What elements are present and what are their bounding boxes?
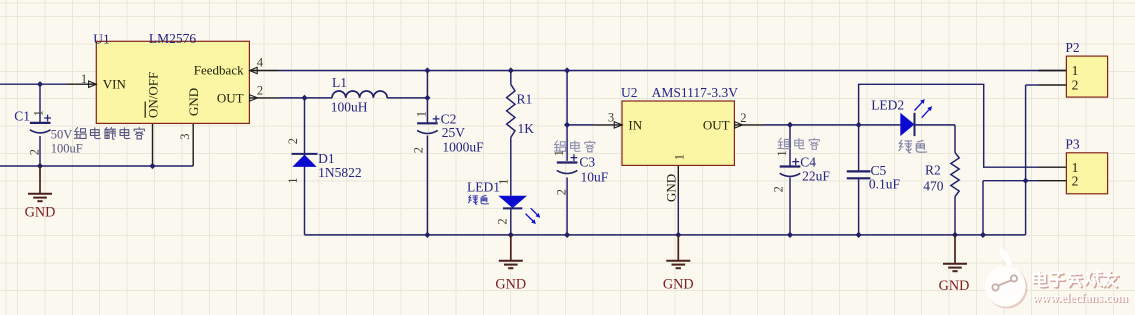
svg-text:U2: U2: [621, 85, 638, 100]
svg-text:1: 1: [414, 111, 428, 117]
svg-text:GND: GND: [495, 277, 526, 293]
svg-text:3: 3: [608, 111, 614, 125]
svg-text:2: 2: [1072, 78, 1079, 93]
svg-text:0.1uF: 0.1uF: [869, 177, 901, 192]
svg-text:100uH: 100uH: [331, 100, 368, 115]
svg-text:C1: C1: [14, 109, 30, 124]
svg-text:1: 1: [775, 150, 789, 156]
svg-text:1: 1: [286, 178, 300, 184]
svg-text:GND: GND: [25, 205, 56, 221]
svg-text:LED1: LED1: [467, 179, 500, 194]
svg-text:C3: C3: [579, 155, 595, 170]
svg-text:10uF: 10uF: [581, 170, 609, 185]
svg-text:2: 2: [740, 111, 746, 125]
svg-text:GND: GND: [663, 174, 678, 202]
svg-text:1: 1: [497, 179, 511, 185]
svg-text:GND: GND: [939, 278, 970, 294]
svg-text:2: 2: [555, 189, 569, 195]
svg-text:100uF: 100uF: [51, 142, 83, 156]
svg-text:1: 1: [32, 110, 46, 116]
svg-text:OUT: OUT: [703, 118, 730, 133]
svg-text:C4: C4: [800, 154, 816, 169]
svg-text:OUT: OUT: [217, 90, 244, 105]
svg-text:LM2576: LM2576: [149, 31, 197, 46]
svg-text:P3: P3: [1065, 137, 1080, 152]
svg-text:1K: 1K: [518, 121, 535, 136]
svg-text:470: 470: [923, 179, 944, 194]
svg-text:1: 1: [672, 154, 686, 160]
svg-text:25V: 25V: [442, 125, 466, 140]
svg-text:R2: R2: [925, 163, 941, 178]
svg-text:2: 2: [495, 218, 509, 224]
svg-text:2: 2: [286, 138, 300, 144]
svg-text:1N5822: 1N5822: [318, 165, 362, 180]
svg-text:2: 2: [28, 149, 42, 155]
svg-text:Feedback: Feedback: [194, 62, 244, 77]
svg-text:2: 2: [772, 186, 786, 192]
svg-text:1: 1: [1072, 63, 1079, 78]
svg-text:2: 2: [411, 147, 425, 153]
svg-text:50V: 50V: [51, 127, 73, 141]
svg-text:U1: U1: [93, 31, 110, 46]
svg-text:1: 1: [81, 72, 87, 86]
svg-text:P2: P2: [1065, 40, 1079, 55]
svg-text:22uF: 22uF: [802, 168, 830, 183]
svg-text:D1: D1: [318, 151, 335, 166]
svg-text:1: 1: [552, 150, 566, 156]
svg-text:C5: C5: [871, 163, 887, 178]
svg-text:GND: GND: [663, 277, 694, 293]
svg-text:AMS1117-3.3V: AMS1117-3.3V: [652, 85, 739, 100]
svg-text:2: 2: [1072, 173, 1079, 188]
svg-text:R1: R1: [517, 92, 533, 107]
svg-text:2: 2: [257, 84, 263, 98]
svg-text:3: 3: [178, 134, 192, 140]
svg-text:GND: GND: [186, 88, 201, 116]
svg-text:VIN: VIN: [103, 77, 127, 92]
svg-text:4: 4: [257, 56, 264, 70]
svg-text:IN: IN: [628, 118, 642, 133]
svg-text:L1: L1: [332, 75, 347, 90]
svg-text:www.elecfans.com: www.elecfans.com: [1032, 291, 1128, 305]
svg-text:ON/OFF: ON/OFF: [145, 72, 160, 118]
svg-text:LED2: LED2: [871, 97, 904, 112]
svg-text:1000uF: 1000uF: [442, 139, 484, 154]
